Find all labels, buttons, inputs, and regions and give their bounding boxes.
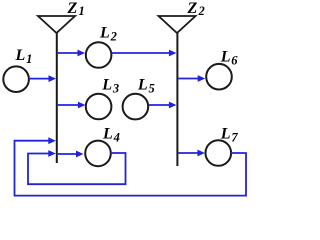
load L1 (3, 66, 29, 92)
wire L5 to bus 2 (arrow) (149, 102, 177, 109)
load L4 (85, 141, 111, 167)
source Z1 triangle (38, 16, 75, 33)
bus 2 (right vertical line under Z2) (176, 33, 178, 166)
junction arrow of L4 loop into bus 1 (48, 150, 56, 157)
wire feedback loop L7 to bus 1 (right, down, left across bottom, up, arrow into bus) (15, 141, 247, 196)
load L5 (123, 94, 149, 120)
load L7 (206, 140, 232, 166)
wire bus 1 to L4 (arrow) (58, 151, 84, 158)
wire L2 to bus 2 (arrow) (112, 50, 177, 57)
bus 1 (left vertical line under Z1) (56, 33, 58, 163)
wire bus 2 to L7 (arrow) (178, 150, 205, 157)
source Z2 triangle (159, 16, 196, 33)
load L2 (86, 42, 112, 68)
wire bus 1 to L2 (arrow) (58, 50, 85, 57)
wire bus 1 to L3 (arrow) (58, 102, 86, 109)
load L3 (86, 94, 112, 120)
wire feedback loop L4 to bus 1 (right, down, left, up, arrow into bus) (28, 153, 126, 184)
wire bus 2 to L6 (arrow) (178, 75, 205, 82)
junction arrow of L7 loop into bus 1 (48, 137, 56, 144)
load L6 (206, 64, 232, 90)
wire L1 to bus 1 (arrow) (30, 75, 56, 82)
